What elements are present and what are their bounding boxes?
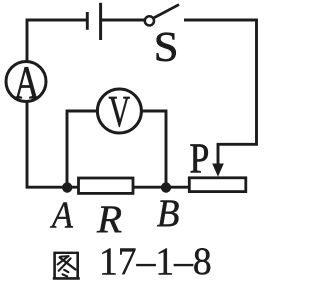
caption character tu (drawn) box	[53, 252, 80, 280]
resistor R box	[79, 178, 134, 193]
svg-text:A: A	[14, 58, 40, 109]
svg-text:S: S	[154, 25, 179, 71]
ammeter A1 circle	[6, 62, 46, 102]
svg-text:B: B	[157, 192, 180, 235]
voltmeter V1 circle	[97, 89, 141, 133]
wire bottom between resistor and rheostat	[133, 186, 190, 189]
switch S lever (open)	[154, 5, 179, 18]
wire ammeter to bottom-left corner to node A	[27, 100, 79, 187]
node A junction dot	[62, 182, 72, 192]
caption character tu inner strokes	[58, 256, 76, 276]
svg-text:A: A	[49, 194, 73, 236]
wire top-left segment	[27, 20, 88, 63]
wire voltmeter branch right	[140, 111, 166, 187]
svg-text:V: V	[109, 86, 131, 136]
switch S pivot circle	[145, 16, 154, 25]
battery cell B (long positive plate)	[99, 3, 102, 40]
rheostat slider arrowhead	[212, 164, 224, 177]
wire voltmeter branch left	[67, 111, 99, 187]
battery cell B (short negative plate)	[86, 12, 89, 30]
svg-text:R: R	[96, 197, 122, 241]
svg-text:17–1–8: 17–1–8	[99, 239, 212, 283]
wire battery to switch	[101, 19, 145, 22]
node B junction dot	[161, 182, 171, 192]
svg-text:P: P	[190, 135, 210, 182]
wire switch to right side down to slider	[184, 20, 257, 167]
rheostat P box	[189, 178, 246, 192]
